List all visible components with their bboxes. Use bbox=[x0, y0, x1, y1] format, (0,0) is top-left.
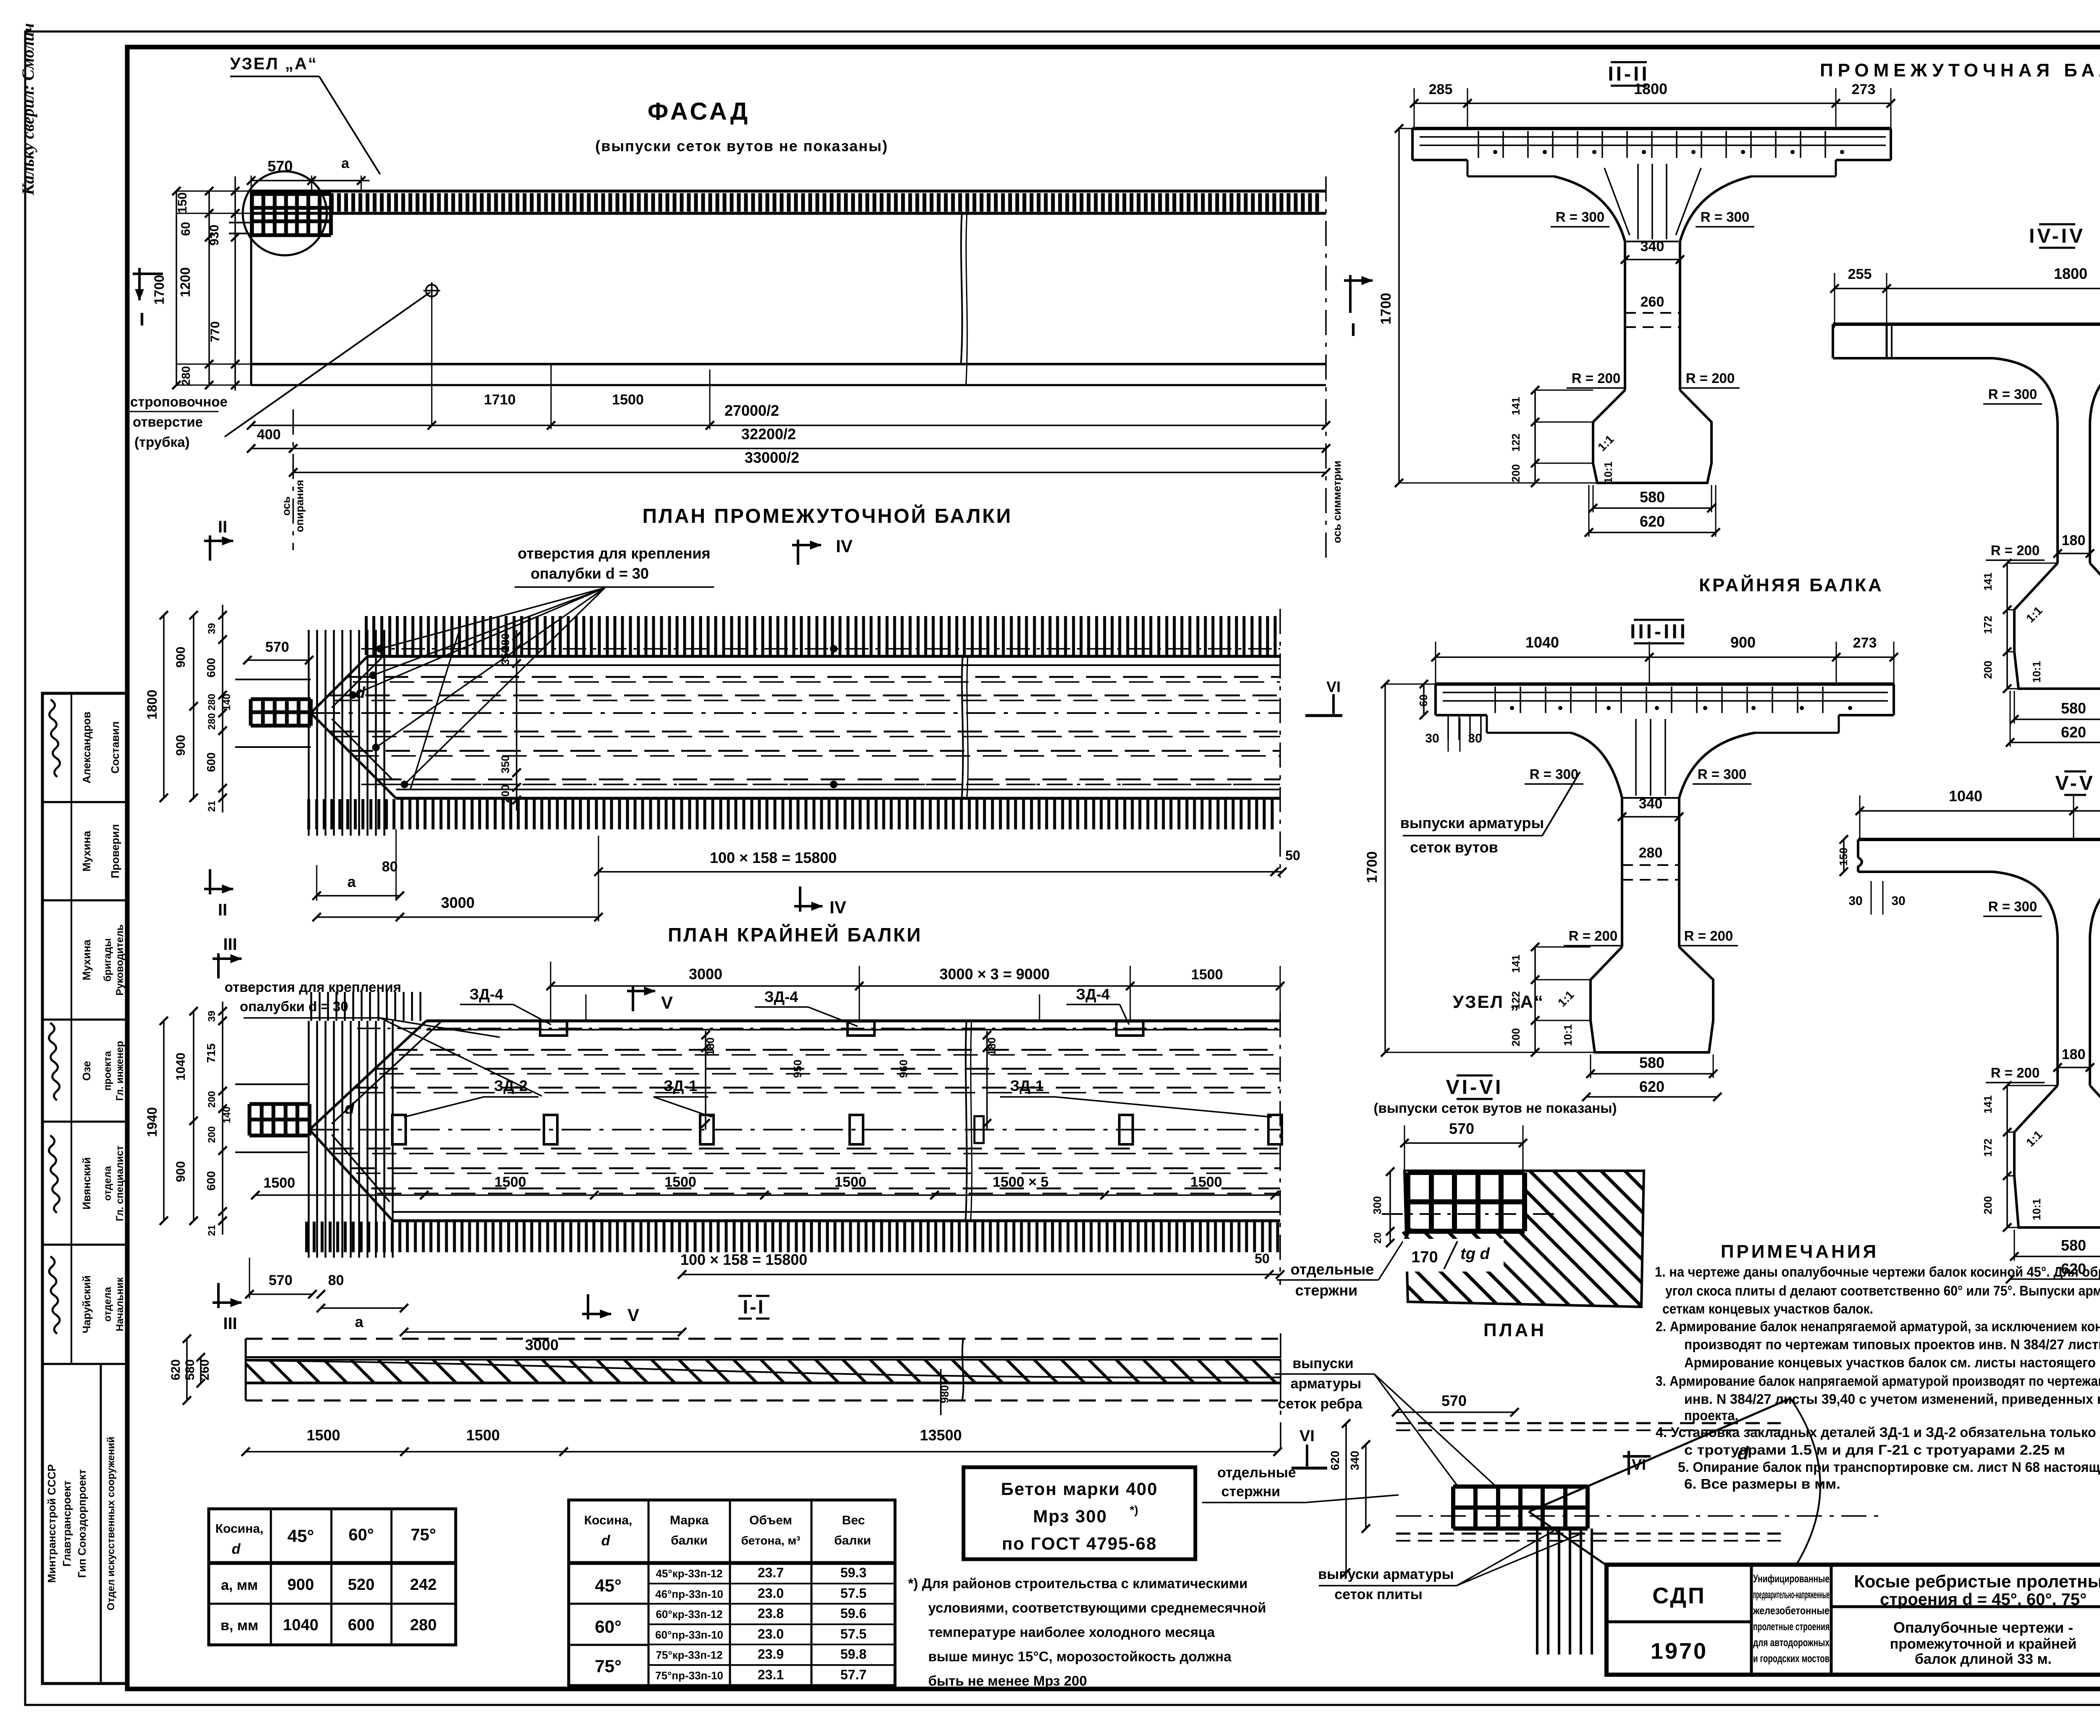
svg-text:200: 200 bbox=[206, 1126, 218, 1143]
svg-text:1800: 1800 bbox=[144, 690, 160, 719]
svg-text:проекта.: проекта. bbox=[1684, 1408, 1738, 1423]
svg-text:580: 580 bbox=[183, 1359, 197, 1380]
svg-text:ЗД-4: ЗД-4 bbox=[1076, 986, 1110, 1003]
plan1 skew comb dense bbox=[309, 630, 384, 836]
plan2 band top edge bbox=[426, 1020, 1280, 1023]
svg-text:1940: 1940 bbox=[144, 1107, 160, 1137]
uzel A detail1 dashdot bbox=[1382, 1213, 1554, 1215]
section III-III web bbox=[1621, 798, 1623, 947]
svg-text:ЗД-1: ЗД-1 bbox=[664, 1077, 697, 1094]
svg-text:Вес: Вес bbox=[842, 1513, 865, 1527]
plan2 tendon dashed lines bbox=[393, 1049, 1280, 1051]
svg-text:сеток ребра: сеток ребра bbox=[1278, 1396, 1363, 1412]
svg-text:отдела: отдела bbox=[102, 1287, 113, 1322]
svg-text:угол скоса плиты d делают соот: угол скоса плиты d делают соответственно… bbox=[1665, 1283, 2100, 1298]
svg-text:Главтрансроект: Главтрансроект bbox=[60, 1480, 73, 1567]
svg-text:Косые ребристые пролетные: Косые ребристые пролетные bbox=[1854, 1571, 2100, 1591]
svg-text:285: 285 bbox=[1429, 81, 1453, 97]
uzel A detail2 comb bbox=[1537, 1529, 1592, 1655]
svg-text:950: 950 bbox=[791, 1059, 804, 1078]
svg-text:23.8: 23.8 bbox=[758, 1606, 784, 1621]
svg-text:предварительно-напряженные: предварительно-напряженные bbox=[1753, 1588, 1830, 1601]
plan1 anchor dashdot lines bbox=[361, 648, 1280, 650]
svg-text:Минтрансстрой СССР: Минтрансстрой СССР bbox=[45, 1464, 58, 1583]
plan2 left dims bbox=[163, 1021, 165, 1221]
plan1 left dims bbox=[163, 615, 165, 798]
title block frame bbox=[1606, 1565, 2100, 1675]
svg-text:620: 620 bbox=[2061, 724, 2086, 741]
svg-text:производят по чертежам типовы: производят по чертежам типовых проектов … bbox=[1684, 1337, 2100, 1352]
svg-text:стержни: стержни bbox=[1295, 1282, 1358, 1299]
uzel A detail1 concrete hatch bbox=[1404, 1171, 1644, 1307]
svg-text:400: 400 bbox=[257, 427, 281, 443]
svg-text:260: 260 bbox=[198, 1359, 212, 1380]
svg-text:III: III bbox=[223, 935, 237, 954]
uzel A detail2 mesh bbox=[1453, 1487, 1588, 1529]
plan1 570 dim bbox=[247, 659, 309, 661]
svg-text:Гл. инженер: Гл. инженер bbox=[114, 1041, 126, 1101]
svg-text:*) Для районов строительства с: *) Для районов строительства с климатиче… bbox=[908, 1576, 1248, 1591]
svg-text:580: 580 bbox=[1640, 488, 1665, 506]
svg-text:отдельные: отдельные bbox=[1291, 1261, 1374, 1278]
section III-III bulb bbox=[1591, 947, 1713, 1052]
angle table bbox=[209, 1509, 456, 1645]
section II-II bottom dims bbox=[1593, 507, 1711, 509]
svg-text:10:1: 10:1 bbox=[2030, 661, 2043, 683]
section marker IV top bbox=[797, 540, 799, 565]
svg-text:570: 570 bbox=[1441, 1392, 1467, 1409]
svg-text:3000: 3000 bbox=[441, 894, 475, 911]
svg-text:200: 200 bbox=[1982, 661, 1994, 679]
svg-text:39: 39 bbox=[206, 1011, 218, 1022]
section marker VI plan1 end bbox=[1332, 694, 1335, 714]
svg-text:242: 242 bbox=[410, 1576, 436, 1594]
section marker V bottom bbox=[587, 1294, 589, 1319]
svg-text:140: 140 bbox=[221, 694, 233, 711]
svg-text:50: 50 bbox=[1255, 1251, 1270, 1266]
svg-text:УЗЕЛ „А“: УЗЕЛ „А“ bbox=[1453, 992, 1544, 1012]
svg-text:Руководитель: Руководитель bbox=[114, 924, 126, 996]
svg-text:КРАЙНЯЯ БАЛКА: КРАЙНЯЯ БАЛКА bbox=[1699, 574, 1884, 595]
svg-text:1500: 1500 bbox=[1190, 1174, 1222, 1190]
svg-text:1500: 1500 bbox=[612, 392, 644, 408]
section V-V bottom dims bbox=[2014, 1256, 2100, 1257]
section II-II bulb small dims bbox=[1534, 390, 1536, 483]
svg-text:условиями, соответствующими ср: условиями, соответствующими среднемесячн… bbox=[928, 1600, 1266, 1615]
svg-text:опалубки d = 30: опалубки d = 30 bbox=[240, 999, 348, 1014]
strop hole symbol bbox=[426, 285, 438, 296]
svg-text:1040: 1040 bbox=[283, 1616, 319, 1634]
svg-text:ЗД-4: ЗД-4 bbox=[764, 988, 798, 1005]
svg-text:2. Армирование балок ненапряга: 2. Армирование балок ненапрягаемой армат… bbox=[1656, 1319, 2100, 1334]
plan2 band bottom edge bbox=[393, 1219, 1280, 1222]
uzel A detail1 left dims bbox=[1389, 1172, 1391, 1243]
section II-II top dims bbox=[1414, 102, 1891, 104]
plan1 joint line bbox=[962, 656, 963, 798]
svg-text:200: 200 bbox=[1982, 1196, 1994, 1214]
marks table bbox=[569, 1500, 895, 1686]
plan2 top dim 3000 bbox=[551, 985, 1282, 987]
svg-text:1040: 1040 bbox=[1949, 787, 1982, 805]
svg-text:VI: VI bbox=[1632, 1456, 1646, 1473]
svg-text:4. Установка закладных деталей: 4. Установка закладных деталей ЗД-1 и ЗД… bbox=[1656, 1424, 2100, 1440]
svg-text:Унифицированные: Унифицированные bbox=[1753, 1572, 1830, 1585]
svg-text:30: 30 bbox=[1891, 894, 1905, 908]
svg-text:60°кр-33п-12: 60°кр-33п-12 bbox=[656, 1608, 722, 1621]
svg-text:Озе: Озе bbox=[80, 1061, 93, 1080]
svg-text:ПЛАН: ПЛАН bbox=[1483, 1320, 1546, 1340]
svg-text:141: 141 bbox=[1982, 572, 1994, 590]
svg-text:1200: 1200 bbox=[178, 267, 193, 297]
bearing axis line bbox=[292, 409, 294, 550]
svg-text:900: 900 bbox=[287, 1576, 314, 1594]
svg-text:промежуточной и крайней: промежуточной и крайней bbox=[1890, 1636, 2076, 1652]
svg-text:Проверил: Проверил bbox=[109, 824, 121, 878]
svg-text:570: 570 bbox=[269, 1272, 293, 1288]
svg-text:I-I: I-I bbox=[743, 1296, 765, 1318]
section III-III 30 30 dims bbox=[1448, 718, 1449, 752]
svg-text:для автодорожных: для автодорожных bbox=[1753, 1636, 1830, 1649]
svg-text:Гл. специалист: Гл. специалист bbox=[114, 1146, 126, 1221]
facade dim line 33000/2 bbox=[293, 472, 1326, 473]
svg-text:Кальку сверил: Смолич: Кальку сверил: Смолич bbox=[18, 23, 37, 196]
svg-text:1500: 1500 bbox=[1191, 967, 1223, 983]
svg-text:II: II bbox=[218, 901, 227, 919]
section 1-1 top dashed line bbox=[246, 1338, 1281, 1340]
svg-text:80: 80 bbox=[328, 1272, 344, 1288]
section IV-IV bulb bbox=[2014, 563, 2100, 689]
svg-text:45°кр-33п-12: 45°кр-33п-12 bbox=[656, 1567, 722, 1580]
svg-text:30: 30 bbox=[1425, 732, 1439, 745]
svg-text:выпуски арматуры: выпуски арматуры bbox=[1400, 814, 1544, 831]
plan1 dim 15800 bbox=[598, 871, 1282, 873]
svg-text:отдельные: отдельные bbox=[1217, 1465, 1296, 1481]
svg-text:1500: 1500 bbox=[307, 1427, 340, 1444]
uzel A detail1 mesh bbox=[1406, 1172, 1525, 1232]
concrete grade box bbox=[963, 1467, 1195, 1559]
svg-text:580: 580 bbox=[2061, 700, 2086, 717]
svg-text:R = 300: R = 300 bbox=[1698, 766, 1747, 782]
svg-text:R = 200: R = 200 bbox=[1991, 1065, 2040, 1080]
plan2 dim 3000 bottom bbox=[404, 1331, 682, 1333]
svg-text:Составил: Составил bbox=[109, 721, 121, 774]
section marker III top bbox=[217, 953, 220, 978]
svg-text:строповочное: строповочное bbox=[130, 394, 228, 409]
stamp column table bbox=[42, 693, 127, 1684]
section V-V top dims bbox=[1860, 810, 2100, 812]
svg-text:Начальник: Начальник bbox=[114, 1277, 126, 1332]
svg-text:172: 172 bbox=[1982, 1138, 1994, 1156]
section 1-1 bottom dims bbox=[246, 1451, 1278, 1453]
svg-text:75°пр-33п-10: 75°пр-33п-10 bbox=[655, 1669, 723, 1682]
svg-text:d: d bbox=[232, 1541, 241, 1557]
svg-text:10:1: 10:1 bbox=[1602, 462, 1614, 483]
svg-text:УЗЕЛ „А“: УЗЕЛ „А“ bbox=[230, 55, 318, 73]
svg-text:45°: 45° bbox=[287, 1526, 314, 1546]
svg-text:R = 300: R = 300 bbox=[1701, 209, 1750, 225]
svg-text:с тротуарами 1.5 м и для Г: с тротуарами 1.5 м и для Г-21 с тротуара… bbox=[1684, 1442, 2065, 1458]
svg-text:II: II bbox=[218, 518, 227, 536]
uzel A detail2 570 dim bbox=[1396, 1411, 1515, 1413]
svg-text:1800: 1800 bbox=[1634, 80, 1667, 97]
svg-text:III-III: III-III bbox=[1630, 621, 1688, 643]
svg-text:57.5: 57.5 bbox=[840, 1586, 866, 1601]
svg-text:стержни: стержни bbox=[1221, 1484, 1280, 1500]
svg-text:VI: VI bbox=[1299, 1427, 1315, 1445]
svg-text:а: а bbox=[355, 1313, 364, 1330]
svg-text:Чаруйский: Чаруйский bbox=[80, 1275, 93, 1333]
svg-text:960: 960 bbox=[897, 1059, 910, 1078]
svg-text:ось симметрии: ось симметрии bbox=[1331, 461, 1343, 543]
svg-text:141: 141 bbox=[1982, 1095, 1994, 1113]
plan2 center dashdot bbox=[310, 1129, 1280, 1130]
facade edge extension lines bbox=[176, 191, 251, 192]
section marker II bottom bbox=[209, 869, 211, 894]
svg-text:*): *) bbox=[1130, 1503, 1138, 1516]
facade end rebar mesh bbox=[252, 194, 331, 235]
plan1 bottom comb bbox=[309, 799, 1272, 829]
section III-III web cage bbox=[1622, 797, 1679, 799]
facade top dimension 570 bbox=[251, 180, 312, 181]
svg-text:Мухина: Мухина bbox=[80, 831, 93, 872]
svg-text:200: 200 bbox=[1509, 1028, 1522, 1046]
plan2 upper dashdot line bbox=[357, 1028, 1280, 1029]
section IV-IV web bbox=[2056, 423, 2059, 563]
svg-text:340: 340 bbox=[1639, 796, 1663, 812]
svg-text:быть не менее Мрз 200: быть не менее Мрз 200 bbox=[928, 1673, 1087, 1689]
svg-text:715: 715 bbox=[205, 1044, 218, 1063]
svg-text:60: 60 bbox=[179, 222, 193, 236]
section II-II flange rebar bbox=[1420, 136, 1886, 138]
svg-text:I: I bbox=[139, 309, 144, 330]
svg-text:1500 × 5: 1500 × 5 bbox=[992, 1174, 1048, 1190]
plan1 dim 3000 bbox=[317, 916, 598, 918]
svg-text:отдела: отдела bbox=[102, 1166, 113, 1201]
section 1-1 inner taper line bbox=[246, 1361, 1281, 1377]
symmetry axis line bbox=[1325, 176, 1327, 559]
svg-text:600: 600 bbox=[348, 1616, 374, 1634]
svg-text:5. Опирание балок при транспор: 5. Опирание балок при транспортировке см… bbox=[1678, 1459, 2100, 1475]
svg-text:280: 280 bbox=[179, 366, 192, 386]
svg-text:Ивянский: Ивянский bbox=[80, 1157, 93, 1210]
plan1 band bottom edge bbox=[396, 797, 1280, 800]
svg-text:3. Армирование балок напрягаем: 3. Армирование балок напрягаемой арматур… bbox=[1656, 1373, 2100, 1389]
svg-text:170: 170 bbox=[1411, 1248, 1438, 1266]
plan2 dim 570 80 bbox=[249, 1293, 312, 1295]
svg-text:180: 180 bbox=[2062, 1046, 2086, 1062]
svg-text:570: 570 bbox=[265, 639, 289, 655]
svg-text:3000: 3000 bbox=[689, 965, 722, 983]
svg-text:ПРИМЕЧАНИЯ: ПРИМЕЧАНИЯ bbox=[1721, 1241, 1879, 1262]
svg-text:10:1: 10:1 bbox=[1562, 1024, 1574, 1046]
plan1 skew end chevron bbox=[311, 656, 367, 713]
svg-text:39: 39 bbox=[206, 623, 218, 635]
svg-text:75°: 75° bbox=[411, 1526, 436, 1544]
svg-text:в, мм: в, мм bbox=[220, 1618, 258, 1634]
holes leader fan plan2 bbox=[380, 1018, 500, 1037]
svg-text:СДП: СДП bbox=[1652, 1583, 1706, 1608]
svg-text:27000/2: 27000/2 bbox=[724, 402, 779, 419]
svg-text:отверстия для крепления: отверстия для крепления bbox=[518, 545, 711, 562]
svg-text:180: 180 bbox=[2062, 532, 2086, 548]
svg-text:и городских мостов: и городских мостов bbox=[1753, 1652, 1830, 1665]
section 1-1 joint line bbox=[962, 1339, 963, 1400]
svg-text:620: 620 bbox=[1639, 1078, 1664, 1095]
facade joint line bbox=[961, 214, 962, 364]
section II-II web bbox=[1624, 241, 1626, 390]
svg-text:340: 340 bbox=[1641, 239, 1664, 254]
svg-text:Марка: Марка bbox=[670, 1513, 709, 1527]
svg-text:980: 980 bbox=[938, 1385, 951, 1403]
svg-text:570: 570 bbox=[1449, 1120, 1474, 1137]
svg-text:1700: 1700 bbox=[1364, 851, 1380, 883]
plan2 ZD-4 embeds bbox=[540, 1021, 567, 1036]
svg-text:сеток плиты: сеток плиты bbox=[1334, 1587, 1423, 1602]
svg-text:46°пр-33п-10: 46°пр-33п-10 bbox=[655, 1588, 723, 1600]
svg-text:57.5: 57.5 bbox=[840, 1626, 866, 1642]
facade dim line 1710-1500-27000/2 bbox=[251, 425, 1326, 426]
svg-text:Мухина: Мухина bbox=[80, 939, 93, 981]
svg-text:1500: 1500 bbox=[466, 1427, 500, 1444]
svg-text:1970: 1970 bbox=[1651, 1639, 1708, 1664]
svg-text:1800: 1800 bbox=[2054, 265, 2087, 282]
svg-text:ЗД-2: ЗД-2 bbox=[494, 1077, 528, 1094]
svg-text:V: V bbox=[661, 993, 673, 1012]
svg-text:59.6: 59.6 bbox=[840, 1606, 866, 1621]
svg-text:300: 300 bbox=[1371, 1196, 1383, 1214]
svg-text:200: 200 bbox=[499, 784, 512, 802]
svg-text:IV: IV bbox=[836, 536, 853, 556]
uzel A detail2 centerline bbox=[1396, 1515, 1886, 1517]
section 1-1 body bbox=[246, 1356, 1281, 1358]
section IV-IV haunch fillets bbox=[1993, 358, 2058, 423]
facade slab strip with stirrup ticks bbox=[251, 190, 1326, 193]
svg-text:141: 141 bbox=[1509, 955, 1522, 973]
svg-text:сеткам концевых участков балок: сеткам концевых участков балок. bbox=[1662, 1301, 1873, 1316]
svg-text:33000/2: 33000/2 bbox=[745, 449, 799, 466]
svg-text:Мрз 300: Мрз 300 bbox=[1033, 1506, 1108, 1526]
svg-text:60°: 60° bbox=[595, 1617, 622, 1636]
svg-text:200: 200 bbox=[1509, 464, 1522, 482]
section III-III bulb small dims bbox=[1534, 947, 1536, 1052]
svg-text:80: 80 bbox=[382, 859, 398, 875]
svg-text:100 × 158 = 15800: 100 × 158 = 15800 bbox=[710, 849, 837, 866]
svg-text:350: 350 bbox=[499, 647, 512, 665]
svg-text:1700: 1700 bbox=[152, 275, 167, 304]
svg-text:выпуски арматуры: выпуски арматуры bbox=[1318, 1566, 1454, 1582]
svg-text:600: 600 bbox=[205, 753, 218, 772]
svg-text:Опалубочные чертежи -: Опалубочные чертежи - bbox=[1893, 1619, 2073, 1636]
svg-text:d: d bbox=[355, 684, 365, 702]
svg-text:а: а bbox=[347, 873, 356, 890]
svg-text:900: 900 bbox=[174, 735, 188, 756]
plan2 inner dim 1500 row bbox=[255, 1194, 1280, 1196]
section III-III flange rebar bbox=[1443, 692, 1888, 693]
svg-text:опалубки d = 30: опалубки d = 30 bbox=[530, 565, 649, 582]
svg-text:930: 930 bbox=[207, 225, 221, 246]
svg-text:1040: 1040 bbox=[174, 1053, 188, 1081]
section IV-IV bottom dims bbox=[2014, 719, 2100, 720]
svg-text:балок длиной 33 м.: балок длиной 33 м. bbox=[1915, 1651, 2052, 1667]
svg-text:VI: VI bbox=[1326, 678, 1341, 695]
plan2 top comb partial bbox=[311, 992, 420, 1021]
svg-text:IV: IV bbox=[829, 897, 846, 917]
svg-text:бригады: бригады bbox=[102, 938, 113, 981]
notes VI marker bbox=[1627, 1451, 1630, 1475]
svg-text:строения d = 45°, 60°, 75°: строения d = 45°, 60°, 75° bbox=[1880, 1590, 2087, 1609]
svg-text:580: 580 bbox=[1639, 1054, 1664, 1071]
plan2 dim a bbox=[321, 1307, 404, 1309]
svg-text:30: 30 bbox=[1848, 894, 1862, 908]
section marker IV bottom bbox=[799, 886, 801, 912]
facade beam bottom edge bbox=[251, 363, 1326, 365]
section marker III bottom bbox=[217, 1283, 220, 1308]
svg-text:арматуры: арматуры bbox=[1291, 1376, 1362, 1392]
svg-text:проекта: проекта bbox=[102, 1051, 113, 1091]
svg-text:d: d bbox=[601, 1533, 611, 1549]
svg-text:(выпуски сеток вутов не по: (выпуски сеток вутов не показаны) bbox=[595, 137, 888, 155]
svg-text:620: 620 bbox=[1640, 513, 1665, 530]
uzel A detail2 angle wedge bbox=[1529, 1398, 1790, 1512]
section marker V top bbox=[632, 986, 634, 1011]
svg-text:R = 200: R = 200 bbox=[1991, 543, 2040, 558]
svg-text:а: а bbox=[341, 155, 350, 171]
svg-text:75°кр-33п-12: 75°кр-33п-12 bbox=[656, 1649, 722, 1661]
plan1 top comb bbox=[366, 616, 1275, 655]
section V-V flange bbox=[1858, 838, 2100, 841]
svg-text:инв. N 384/27 листы 39,40 с уч: инв. N 384/27 листы 39,40 с учетом измен… bbox=[1684, 1391, 2100, 1407]
plan2 skew comb dense bbox=[309, 1021, 393, 1258]
svg-text:23.0: 23.0 bbox=[758, 1586, 784, 1601]
svg-text:620: 620 bbox=[1328, 1451, 1341, 1471]
svg-text:ПЛАН ПРОМЕЖУТОЧНОЙ БАЛКИ: ПЛАН ПРОМЕЖУТОЧНОЙ БАЛКИ bbox=[643, 504, 1013, 527]
svg-text:1500: 1500 bbox=[664, 1174, 696, 1190]
svg-text:280: 280 bbox=[206, 713, 218, 730]
svg-text:10:1: 10:1 bbox=[2030, 1198, 2043, 1220]
svg-text:(трубка): (трубка) bbox=[134, 434, 189, 450]
svg-text:273: 273 bbox=[1853, 635, 1877, 651]
svg-text:1040: 1040 bbox=[1525, 634, 1559, 651]
svg-text:57.7: 57.7 bbox=[840, 1667, 866, 1682]
svg-text:21: 21 bbox=[206, 1225, 218, 1236]
svg-text:R = 300: R = 300 bbox=[1988, 386, 2037, 402]
svg-text:а, мм: а, мм bbox=[221, 1577, 258, 1593]
svg-text:570: 570 bbox=[268, 157, 293, 175]
svg-text:железобетонные: железобетонные bbox=[1753, 1604, 1830, 1617]
section II-II web cage bbox=[1625, 241, 1680, 242]
svg-text:1700: 1700 bbox=[1378, 293, 1394, 325]
svg-text:1. на чертеже даны опалубочные: 1. на чертеже даны опалубочные чертежи б… bbox=[1655, 1264, 2100, 1280]
section V-V bulb bbox=[2014, 1086, 2100, 1227]
svg-text:Армирование концевых участков: Армирование концевых участков балок см. … bbox=[1684, 1355, 2100, 1370]
svg-text:350: 350 bbox=[499, 755, 512, 773]
svg-text:отверстия для крепления: отверстия для крепления bbox=[225, 979, 402, 995]
svg-text:1500: 1500 bbox=[263, 1175, 295, 1191]
section III-III bottom dims bbox=[1591, 1073, 1713, 1075]
holes leader fan plan1 bbox=[380, 588, 605, 649]
svg-text:60°: 60° bbox=[349, 1526, 374, 1544]
svg-text:выше минус 15°С, морозостойкос: выше минус 15°С, морозостойкость должна bbox=[928, 1649, 1231, 1664]
svg-text:1500: 1500 bbox=[835, 1174, 866, 1190]
svg-text:сеток вутов: сеток вутов bbox=[1410, 839, 1498, 856]
section III-III flange outline bbox=[1436, 682, 1894, 686]
plan2 skew end chevron bbox=[310, 1021, 426, 1130]
svg-text:отверстие: отверстие bbox=[133, 414, 203, 430]
svg-text:Гип Союздорпроект: Гип Союздорпроект bbox=[76, 1469, 88, 1578]
section II-II flange outline bbox=[1412, 127, 1891, 130]
plan1 end mesh bbox=[251, 699, 311, 726]
section II-II height dim 1700 bbox=[1398, 128, 1400, 483]
